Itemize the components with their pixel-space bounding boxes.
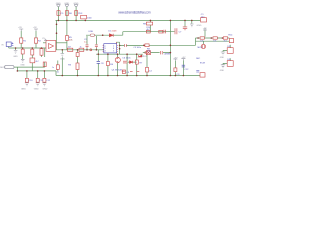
svg-text:GND: GND xyxy=(220,70,225,72)
svg-text:ECM: ECM xyxy=(200,63,205,65)
svg-text:4148: 4148 xyxy=(112,31,118,33)
svg-text:1u: 1u xyxy=(52,67,54,69)
svg-text:GND: GND xyxy=(220,57,225,59)
svg-text:GND: GND xyxy=(21,88,26,90)
svg-text:OUT: OUT xyxy=(143,56,148,58)
svg-text:+9V: +9V xyxy=(33,27,37,29)
svg-text:GND: GND xyxy=(74,3,79,5)
svg-text:+9V: +9V xyxy=(174,57,178,59)
svg-text:+9V: +9V xyxy=(203,28,207,30)
svg-text:10k: 10k xyxy=(200,41,203,43)
svg-text:LM386: LM386 xyxy=(164,54,171,56)
svg-text:LINE: LINE xyxy=(89,31,94,33)
svg-text:C6 100n: C6 100n xyxy=(122,57,131,59)
svg-text:GND: GND xyxy=(20,64,25,66)
svg-text:+9V: +9V xyxy=(182,57,186,59)
svg-text:1k: 1k xyxy=(80,47,82,49)
svg-text:MIC: MIC xyxy=(196,58,200,60)
svg-text:GND: GND xyxy=(64,3,69,5)
svg-text:GND: GND xyxy=(60,58,65,60)
svg-text:GND: GND xyxy=(42,88,47,90)
svg-text:GND: GND xyxy=(34,88,39,90)
svg-text:10k: 10k xyxy=(213,41,216,43)
svg-text:GND: GND xyxy=(56,3,61,5)
svg-text:100n: 100n xyxy=(87,18,93,20)
svg-text:www.schematicsforfree.com: www.schematicsforfree.com xyxy=(118,11,151,15)
svg-text:PUF: PUF xyxy=(78,13,83,15)
svg-text:GND: GND xyxy=(13,56,18,58)
svg-text:MIC2: MIC2 xyxy=(0,67,6,69)
svg-text:C9 100n: C9 100n xyxy=(133,47,141,49)
svg-text:Q1 BC548: Q1 BC548 xyxy=(112,69,123,71)
svg-text:GND: GND xyxy=(197,25,202,27)
svg-text:+9V: +9V xyxy=(18,27,22,29)
